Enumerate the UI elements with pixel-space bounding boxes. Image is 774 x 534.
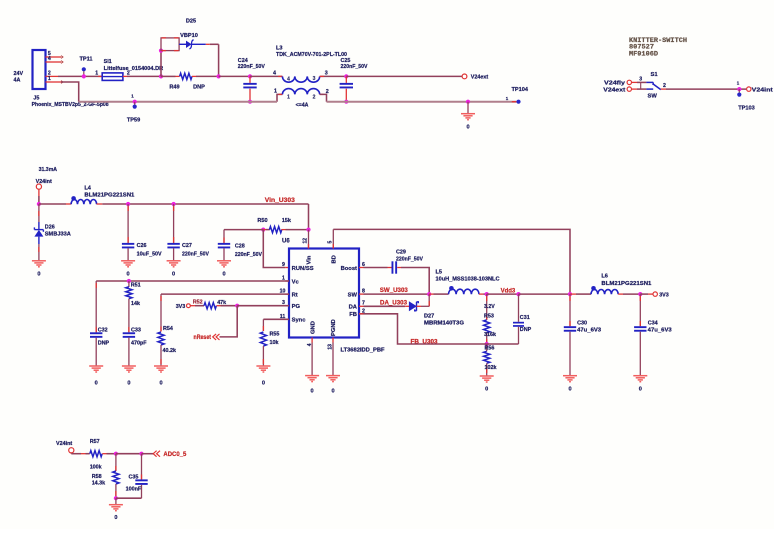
svg-text:24V: 24V bbox=[14, 71, 24, 77]
svg-text:2: 2 bbox=[663, 83, 666, 89]
resistor R52 47k bbox=[190, 305, 195, 307]
svg-text:RUN/SS: RUN/SS bbox=[292, 266, 314, 272]
svg-text:220nF_50V: 220nF_50V bbox=[235, 252, 262, 258]
junction C31 top bbox=[516, 292, 520, 296]
svg-text:DNP: DNP bbox=[193, 85, 205, 91]
svg-text:C26: C26 bbox=[137, 243, 147, 249]
ground C32 bbox=[89, 366, 103, 372]
svg-text:R54: R54 bbox=[163, 326, 173, 332]
svg-text:C33: C33 bbox=[131, 327, 141, 333]
svg-text:D25: D25 bbox=[186, 18, 196, 24]
wire to ADC junction bbox=[116, 453, 142, 455]
junction FB node bbox=[485, 342, 489, 346]
svg-text:Vc: Vc bbox=[292, 279, 300, 285]
ground top rail bbox=[466, 100, 470, 104]
svg-text:0: 0 bbox=[466, 125, 469, 131]
svg-text:0: 0 bbox=[95, 381, 98, 387]
svg-text:DA: DA bbox=[349, 305, 358, 311]
testpoint TP104 bbox=[512, 101, 517, 103]
wire D25 down to node B bbox=[218, 44, 220, 76]
bottom return rail bbox=[79, 101, 277, 103]
svg-text:316k: 316k bbox=[484, 332, 496, 338]
svg-text:0: 0 bbox=[485, 387, 488, 393]
svg-text:C24: C24 bbox=[238, 58, 248, 64]
svg-text:MF9106D: MF9106D bbox=[629, 50, 658, 57]
diode D27 MBRM140T3G bbox=[409, 301, 417, 311]
svg-text:C31: C31 bbox=[520, 315, 530, 321]
wire node B to C24 bbox=[219, 75, 250, 77]
svg-text:PGND: PGND bbox=[331, 319, 337, 336]
wire V24fly to switch bbox=[632, 81, 638, 83]
svg-text:1: 1 bbox=[287, 95, 290, 101]
wire R50 left to C28 bbox=[224, 229, 263, 231]
net V24fly open circle bbox=[627, 80, 631, 84]
svg-text:220nF_50V: 220nF_50V bbox=[182, 252, 209, 258]
wire Vin corner down bbox=[308, 204, 310, 230]
wire to ADC chevrons bbox=[142, 453, 154, 455]
wire Vc net bbox=[96, 280, 289, 282]
wire Sync net bbox=[263, 318, 289, 320]
ground R55 bbox=[256, 366, 270, 372]
diode D25 VBP10 bbox=[179, 43, 186, 45]
svg-text:0: 0 bbox=[331, 388, 334, 394]
capacitor C30 47u_6V3 bbox=[569, 294, 571, 326]
junction R50 right / Vin pin bbox=[306, 228, 310, 232]
wire PG down to nReset bbox=[220, 306, 238, 337]
svg-text:DNP: DNP bbox=[520, 327, 532, 333]
svg-text:0: 0 bbox=[172, 272, 175, 278]
svg-text:FB: FB bbox=[349, 312, 357, 318]
svg-text:C32: C32 bbox=[98, 327, 108, 333]
svg-text:4: 4 bbox=[273, 70, 276, 76]
wire node A up to D25 loop bbox=[160, 51, 162, 77]
ground C34 bbox=[633, 376, 647, 382]
choke L3 bottom winding bbox=[277, 94, 282, 101]
svg-text:V24ext: V24ext bbox=[471, 75, 489, 81]
svg-text:DA_U303: DA_U303 bbox=[380, 300, 408, 306]
junction C30 top bbox=[568, 292, 572, 296]
ground U6 GND bbox=[305, 376, 319, 382]
svg-text:ADC0_5: ADC0_5 bbox=[163, 452, 187, 458]
ground C28 bbox=[217, 261, 231, 267]
svg-text:220nF_50V: 220nF_50V bbox=[238, 64, 265, 70]
junction C35 top bbox=[139, 452, 143, 456]
U6 pin Vin 12 bbox=[308, 230, 310, 249]
ground C30 bbox=[563, 376, 577, 382]
svg-text:3V3: 3V3 bbox=[659, 292, 669, 298]
svg-text:S1: S1 bbox=[651, 72, 659, 78]
svg-text:100nF: 100nF bbox=[126, 486, 142, 492]
node A junction bbox=[159, 74, 163, 78]
wire V24int to R57 bbox=[70, 452, 72, 455]
svg-text:R58: R58 bbox=[92, 474, 102, 480]
svg-text:14k: 14k bbox=[131, 301, 140, 307]
wire DA to D27 bbox=[364, 305, 406, 307]
resistor R50 15k bbox=[261, 228, 265, 232]
svg-text:C35: C35 bbox=[129, 474, 139, 480]
svg-text:4: 4 bbox=[48, 56, 51, 62]
svg-text:1: 1 bbox=[48, 76, 51, 82]
svg-text:<=4A: <=4A bbox=[296, 102, 309, 108]
ADC0_5 chevrons bbox=[153, 451, 160, 457]
svg-text:102k: 102k bbox=[485, 365, 497, 371]
testpoint TP103 bbox=[738, 89, 740, 92]
ground R56 bbox=[480, 376, 494, 382]
junction R53 top bbox=[485, 292, 489, 296]
svg-text:U6: U6 bbox=[282, 239, 290, 245]
svg-text:D26: D26 bbox=[45, 225, 55, 231]
wire FB to C31 bbox=[487, 343, 519, 345]
junction R51 top bbox=[127, 279, 131, 283]
capacitor C33 470pF bbox=[123, 332, 135, 338]
svg-text:R56: R56 bbox=[485, 345, 495, 351]
svg-text:47u_6V3: 47u_6V3 bbox=[648, 327, 672, 333]
svg-text:470pF: 470pF bbox=[131, 341, 147, 347]
choke L3 top winding bbox=[282, 76, 319, 82]
wire C25 to V24ext bbox=[346, 75, 462, 77]
wire Rt corner down to R54 bbox=[160, 294, 162, 331]
junction C34 top bbox=[638, 292, 642, 296]
svg-text:TP104: TP104 bbox=[512, 87, 529, 93]
wire V24int down to rail bbox=[38, 189, 40, 196]
connector J5 bbox=[33, 50, 46, 89]
resistor R53 316k bbox=[486, 294, 488, 320]
svg-text:3V3: 3V3 bbox=[176, 304, 186, 310]
svg-text:1: 1 bbox=[274, 89, 277, 95]
junction C25 top bbox=[344, 74, 348, 78]
svg-text:R51: R51 bbox=[131, 283, 141, 289]
svg-text:L5: L5 bbox=[436, 269, 443, 275]
svg-text:Boost: Boost bbox=[341, 266, 357, 272]
junction C24 bottom bbox=[248, 100, 252, 104]
inductor L6 BLM21PG221SN1 bbox=[591, 290, 618, 295]
svg-text:nReset: nReset bbox=[194, 335, 212, 341]
svg-text:D27: D27 bbox=[424, 313, 434, 319]
svg-text:5: 5 bbox=[328, 241, 334, 244]
svg-text:J5: J5 bbox=[33, 96, 39, 102]
svg-text:TP59: TP59 bbox=[127, 117, 140, 123]
svg-text:C34: C34 bbox=[648, 321, 658, 327]
wire S1 to V24int bbox=[666, 88, 746, 90]
svg-text:2: 2 bbox=[313, 95, 316, 101]
resistor R57 100k bbox=[86, 453, 90, 455]
svg-text:BD: BD bbox=[332, 255, 338, 263]
wire C24 to L3 bbox=[250, 75, 282, 77]
svg-text:MBRM140T3G: MBRM140T3G bbox=[424, 321, 464, 327]
svg-text:BLM21PG221SN1: BLM21PG221SN1 bbox=[84, 193, 134, 199]
svg-text:C30: C30 bbox=[577, 321, 587, 327]
svg-text:L3: L3 bbox=[276, 46, 283, 52]
svg-text:4: 4 bbox=[287, 77, 290, 83]
J5 pin 5 stub bbox=[46, 56, 62, 58]
capacitor C25 bbox=[345, 76, 347, 83]
junction D25 loop bbox=[159, 49, 163, 53]
wire Sync corner down to R55 bbox=[262, 319, 264, 331]
svg-text:0: 0 bbox=[222, 272, 225, 278]
wire FB net bbox=[359, 314, 487, 344]
wire Vc corner down to C32 bbox=[95, 281, 97, 332]
net 3V3 R52 open circle bbox=[187, 304, 191, 308]
svg-text:0: 0 bbox=[127, 272, 130, 278]
svg-text:R55: R55 bbox=[270, 332, 280, 338]
capacitor C27 bbox=[173, 204, 175, 243]
svg-text:0: 0 bbox=[568, 386, 571, 392]
wire V24ext to switch bbox=[632, 88, 638, 90]
junction R58 bottom bbox=[114, 496, 118, 500]
J5 pin 4 stub bbox=[46, 61, 62, 63]
junction C24 top bbox=[248, 74, 252, 78]
ground C26 bbox=[121, 261, 135, 267]
svg-text:0: 0 bbox=[127, 381, 130, 387]
svg-text:3: 3 bbox=[313, 76, 316, 82]
wire J5 pin2 to fuse bbox=[58, 75, 102, 77]
svg-text:0: 0 bbox=[114, 515, 117, 521]
capacitor C26 bbox=[127, 204, 129, 243]
svg-text:220nF_50V: 220nF_50V bbox=[396, 256, 423, 262]
junction C25 bottom bbox=[344, 100, 348, 104]
switch S1 contacts and arm bbox=[646, 82, 660, 89]
J5 pin 1 stub bbox=[46, 81, 62, 83]
testpoint TP59 bbox=[133, 100, 137, 104]
wire L4 to Vin corner bbox=[102, 203, 308, 205]
svg-text:PG: PG bbox=[292, 304, 301, 310]
svg-text:V24int: V24int bbox=[752, 87, 773, 93]
wire Vdd3 rail bbox=[487, 293, 519, 295]
junction V24int rail bbox=[37, 202, 41, 206]
svg-text:GND: GND bbox=[310, 321, 316, 334]
svg-text:R50: R50 bbox=[257, 218, 267, 224]
svg-text:31.3mA: 31.3mA bbox=[39, 167, 58, 173]
ground C33 bbox=[122, 366, 136, 372]
svg-text:15k: 15k bbox=[282, 218, 292, 224]
junction PG node bbox=[235, 304, 239, 308]
op-amp U6 LT3682IDD_PBF body bbox=[289, 249, 359, 338]
wire fuse to node A bbox=[127, 75, 161, 77]
svg-text:0: 0 bbox=[639, 386, 642, 392]
svg-text:SW: SW bbox=[648, 93, 658, 99]
nReset chevrons bbox=[213, 334, 220, 340]
svg-text:10uH_MSS1038-103NLC: 10uH_MSS1038-103NLC bbox=[436, 276, 500, 282]
junction C26 top bbox=[126, 202, 130, 206]
svg-text:10k: 10k bbox=[270, 340, 279, 346]
svg-text:C27: C27 bbox=[182, 243, 192, 249]
svg-text:0: 0 bbox=[311, 388, 314, 394]
ground ADC block bbox=[109, 505, 123, 511]
ground R54 bbox=[154, 366, 168, 372]
capacitor C28 bbox=[218, 243, 230, 249]
wire SW to junction bbox=[364, 293, 430, 295]
inductor L5 10uH bbox=[429, 293, 433, 295]
wire S1 pin2 stub bbox=[661, 88, 666, 90]
svg-text:3: 3 bbox=[325, 70, 328, 76]
svg-text:12: 12 bbox=[303, 238, 309, 244]
wire SW node down to D27 bbox=[428, 294, 430, 306]
svg-text:V24int: V24int bbox=[56, 441, 72, 447]
svg-text:0: 0 bbox=[262, 381, 265, 387]
svg-text:L6: L6 bbox=[601, 273, 608, 279]
svg-text:Sync: Sync bbox=[292, 318, 307, 324]
svg-text:220nF_50V: 220nF_50V bbox=[341, 64, 368, 70]
svg-text:Phoenix_MSTBV2p5_2-GF-5p08: Phoenix_MSTBV2p5_2-GF-5p08 bbox=[32, 102, 109, 108]
svg-text:10uF_50V: 10uF_50V bbox=[137, 252, 162, 258]
inductor L4 BLM21PG221SN1 bbox=[71, 200, 97, 205]
wire to ground bottom bbox=[115, 498, 117, 505]
svg-text:47u_6V3: 47u_6V3 bbox=[577, 327, 601, 333]
svg-text:Littelfuse_0154004.DR: Littelfuse_0154004.DR bbox=[104, 66, 164, 72]
svg-text:TP103: TP103 bbox=[738, 106, 754, 112]
capacitor C35 100nF bbox=[141, 454, 143, 480]
fuse SI1 bbox=[98, 75, 102, 77]
svg-text:Vin: Vin bbox=[307, 255, 313, 264]
capacitor C34 47u_6V3 bbox=[639, 294, 641, 326]
svg-text:3: 3 bbox=[639, 77, 642, 83]
svg-text:2: 2 bbox=[326, 89, 329, 95]
wire L3 pin3 to C25 bbox=[320, 75, 347, 77]
D25 wire loop rectangle bbox=[161, 38, 179, 51]
svg-text:100k: 100k bbox=[90, 465, 102, 471]
wire rail to L4 bbox=[39, 203, 66, 205]
TVS diode D26 SMBJ33A bbox=[38, 204, 40, 222]
wire PG net bbox=[237, 305, 289, 307]
svg-text:C29: C29 bbox=[396, 250, 406, 256]
svg-text:BLM21PG221SN1: BLM21PG221SN1 bbox=[601, 281, 651, 287]
net V24int bottom open circle bbox=[69, 448, 74, 453]
svg-text:L4: L4 bbox=[84, 186, 91, 192]
capacitor C32 DNP bbox=[90, 332, 102, 338]
resistor R56 102k bbox=[486, 344, 488, 351]
svg-text:SI1: SI1 bbox=[104, 59, 112, 65]
resistor R54 40.2k bbox=[158, 332, 164, 345]
capacitor C31 DNP bbox=[518, 294, 520, 322]
junction SW node bbox=[427, 292, 431, 296]
junction C27 top bbox=[172, 202, 176, 206]
svg-text:Rt: Rt bbox=[292, 292, 298, 298]
ground D26 bbox=[32, 261, 46, 267]
junction TP103 node bbox=[737, 87, 741, 91]
testpoint TP11 bbox=[82, 67, 86, 71]
svg-text:SW_U303: SW_U303 bbox=[380, 288, 409, 294]
svg-text:0: 0 bbox=[159, 381, 162, 387]
wire to 3V3 bbox=[640, 293, 648, 295]
svg-text:47k: 47k bbox=[217, 300, 226, 306]
node B junction bbox=[217, 74, 221, 78]
wire J5 pin1 to bottom rail bbox=[61, 82, 79, 102]
net V24ext switch open circle bbox=[627, 87, 631, 91]
net 3V3 open circle bbox=[653, 292, 657, 296]
svg-text:0: 0 bbox=[37, 272, 40, 278]
wire Rt net bbox=[161, 293, 289, 295]
svg-text:TDK_ACM70V-701-2PL-TL00: TDK_ACM70V-701-2PL-TL00 bbox=[276, 52, 347, 58]
svg-text:3.2V: 3.2V bbox=[484, 304, 495, 310]
svg-text:14.3k: 14.3k bbox=[92, 481, 106, 487]
resistor R51 14k bbox=[128, 281, 130, 287]
wire BD net bbox=[333, 229, 570, 294]
S1 pin tick bbox=[640, 82, 642, 89]
J5 pin 2 stub bbox=[46, 75, 59, 77]
svg-text:R53: R53 bbox=[484, 314, 494, 320]
svg-text:DNP: DNP bbox=[98, 341, 110, 347]
resistor R55 10k bbox=[260, 332, 266, 346]
wire C35 bottom to ground node bbox=[116, 497, 142, 499]
svg-text:LT3682IDD_PBF: LT3682IDD_PBF bbox=[341, 347, 385, 353]
net V24int open circle mid bbox=[36, 184, 41, 189]
capacitor C29 bbox=[364, 267, 388, 269]
svg-text:V24ext: V24ext bbox=[603, 87, 625, 93]
svg-text:1: 1 bbox=[95, 70, 98, 76]
svg-text:R57: R57 bbox=[90, 439, 100, 445]
resistor R58 14.3k bbox=[115, 454, 117, 471]
junction R58 top bbox=[114, 452, 118, 456]
net V24ext open circle bbox=[462, 74, 467, 79]
svg-text:Vin_U303: Vin_U303 bbox=[265, 198, 296, 204]
ground U6 PGND bbox=[326, 376, 340, 382]
svg-text:R49: R49 bbox=[169, 85, 179, 91]
net V24int switch open circle bbox=[747, 87, 751, 91]
svg-text:40.2k: 40.2k bbox=[163, 348, 177, 354]
U6 pin BD 5 bbox=[332, 229, 334, 248]
svg-text:C25: C25 bbox=[341, 58, 351, 64]
wire R50 left down to RUN/SS bbox=[263, 230, 285, 268]
junction TP11 node bbox=[82, 74, 86, 78]
svg-text:SW: SW bbox=[348, 292, 358, 298]
svg-text:C28: C28 bbox=[235, 244, 245, 250]
svg-text:TP11: TP11 bbox=[79, 56, 92, 62]
svg-text:9: 9 bbox=[282, 262, 285, 268]
svg-text:R52: R52 bbox=[193, 300, 203, 306]
resistor R49 DNP bbox=[161, 75, 176, 77]
svg-text:V24fly: V24fly bbox=[604, 81, 625, 87]
svg-text:VBP10: VBP10 bbox=[180, 33, 198, 39]
ground C27 bbox=[167, 261, 181, 267]
svg-text:SMBJ33A: SMBJ33A bbox=[45, 232, 71, 238]
svg-text:4A: 4A bbox=[14, 78, 21, 84]
capacitor C24 bbox=[249, 76, 251, 83]
